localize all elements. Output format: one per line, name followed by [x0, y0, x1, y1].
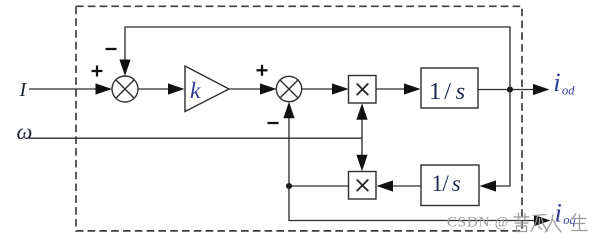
wire integrator 2 to multiplier 2 — [392, 185, 421, 187]
wire integrator 1 to output i_od — [478, 89, 536, 91]
omega wire up into multiplier 1 — [361, 118, 363, 138]
multiplier block 2 (square with X) — [349, 172, 377, 200]
svg-text:1/s: 1/s — [432, 171, 461, 196]
integrator block 2 (1/s) — [421, 165, 479, 206]
summing junction 1 (circle with X) — [112, 76, 138, 102]
wire multiplier 1 to integrator 1 — [376, 88, 406, 90]
arrowhead output i_od — [533, 84, 550, 95]
top feedback wire (from junction dot up and left) — [125, 27, 510, 90]
arrowhead down into multiplier 2 — [356, 155, 367, 172]
junction dot bottom — [286, 183, 292, 189]
wire summing junction 1 to gain k — [138, 88, 171, 90]
svg-text:CSDN @: CSDN @ — [447, 215, 509, 231]
arrowhead left into multiplier 2 — [377, 180, 394, 191]
svg-text:i: i — [553, 67, 560, 97]
svg-text:k: k — [190, 78, 201, 104]
minus sign at summing junction 2 — [268, 122, 279, 124]
bottom output wire to i_oq — [289, 186, 537, 221]
omega wire down into multiplier 2 — [361, 138, 363, 156]
arrowhead into gain k — [168, 83, 185, 94]
svg-text:1/s: 1/s — [429, 78, 465, 105]
watermark CJK glyph ren — [545, 215, 562, 233]
plus sign at summing junction 1 — [92, 66, 103, 77]
summing junction 2 (circle with X) — [276, 76, 301, 101]
right feedback wire down to integrator 2 — [494, 90, 510, 187]
multiplier block 1 (square with X) — [349, 76, 377, 104]
wire gain k to summing junction 2 — [229, 88, 262, 90]
watermark CJK glyph sheng — [572, 214, 588, 231]
arrowhead up into summing junction 2 — [283, 102, 294, 119]
integrator block 1 (1/s) — [421, 68, 478, 108]
arrowhead into summing junction 1 — [96, 83, 113, 94]
watermark CJK glyph ku — [514, 213, 530, 232]
svg-text:od: od — [562, 83, 575, 97]
arrowhead into multiplier 1 — [332, 83, 349, 94]
svg-text:ω: ω — [17, 119, 33, 144]
arrowhead output i_oq — [534, 215, 551, 226]
minus sign of top feedback — [106, 48, 117, 50]
svg-text:I: I — [19, 79, 28, 101]
arrowhead up into multiplier 1 — [356, 103, 367, 120]
junction dot top right — [507, 87, 513, 93]
arrowhead left into integrator 2 — [480, 180, 497, 191]
watermark CJK glyph gua — [531, 215, 548, 232]
arrowhead down into summing junction 1 — [119, 60, 130, 77]
wire multiplier 2 to junction dot bottom — [289, 185, 349, 187]
wire summing junction 2 to multiplier 1 — [302, 88, 334, 90]
arrowhead into summing junction 2 — [260, 83, 277, 94]
svg-text:oq: oq — [563, 213, 576, 227]
gain block k (triangle) — [185, 66, 229, 112]
feedback wire from bottom dot up into summing junction 2 — [288, 115, 290, 186]
arrowhead into integrator 1 — [404, 83, 421, 94]
wire I input — [29, 88, 98, 90]
plus sign at summing junction 2 — [257, 65, 268, 76]
dashed system boundary box — [76, 6, 522, 231]
omega input wire — [29, 137, 362, 139]
